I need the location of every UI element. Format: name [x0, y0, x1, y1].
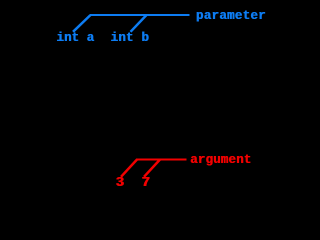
node: argument label	[190, 154, 251, 167]
wire: diagonal from "7" up to horizontal	[144, 160, 160, 177]
wire: diagonal from "3" up to horizontal	[121, 160, 137, 177]
node: value 7	[141, 176, 149, 190]
node: parameter label	[196, 10, 266, 23]
wire: diagonal from "int b" up to horizontal	[131, 15, 147, 32]
node: int b	[110, 32, 149, 45]
node: value 3	[115, 176, 123, 190]
wire: diagonal from "int a" up to horizontal	[73, 15, 91, 32]
node: int a	[56, 32, 94, 45]
wire: blue horizontal line to parameter label	[90, 14, 190, 16]
wire: red horizontal line to argument label	[136, 159, 187, 161]
